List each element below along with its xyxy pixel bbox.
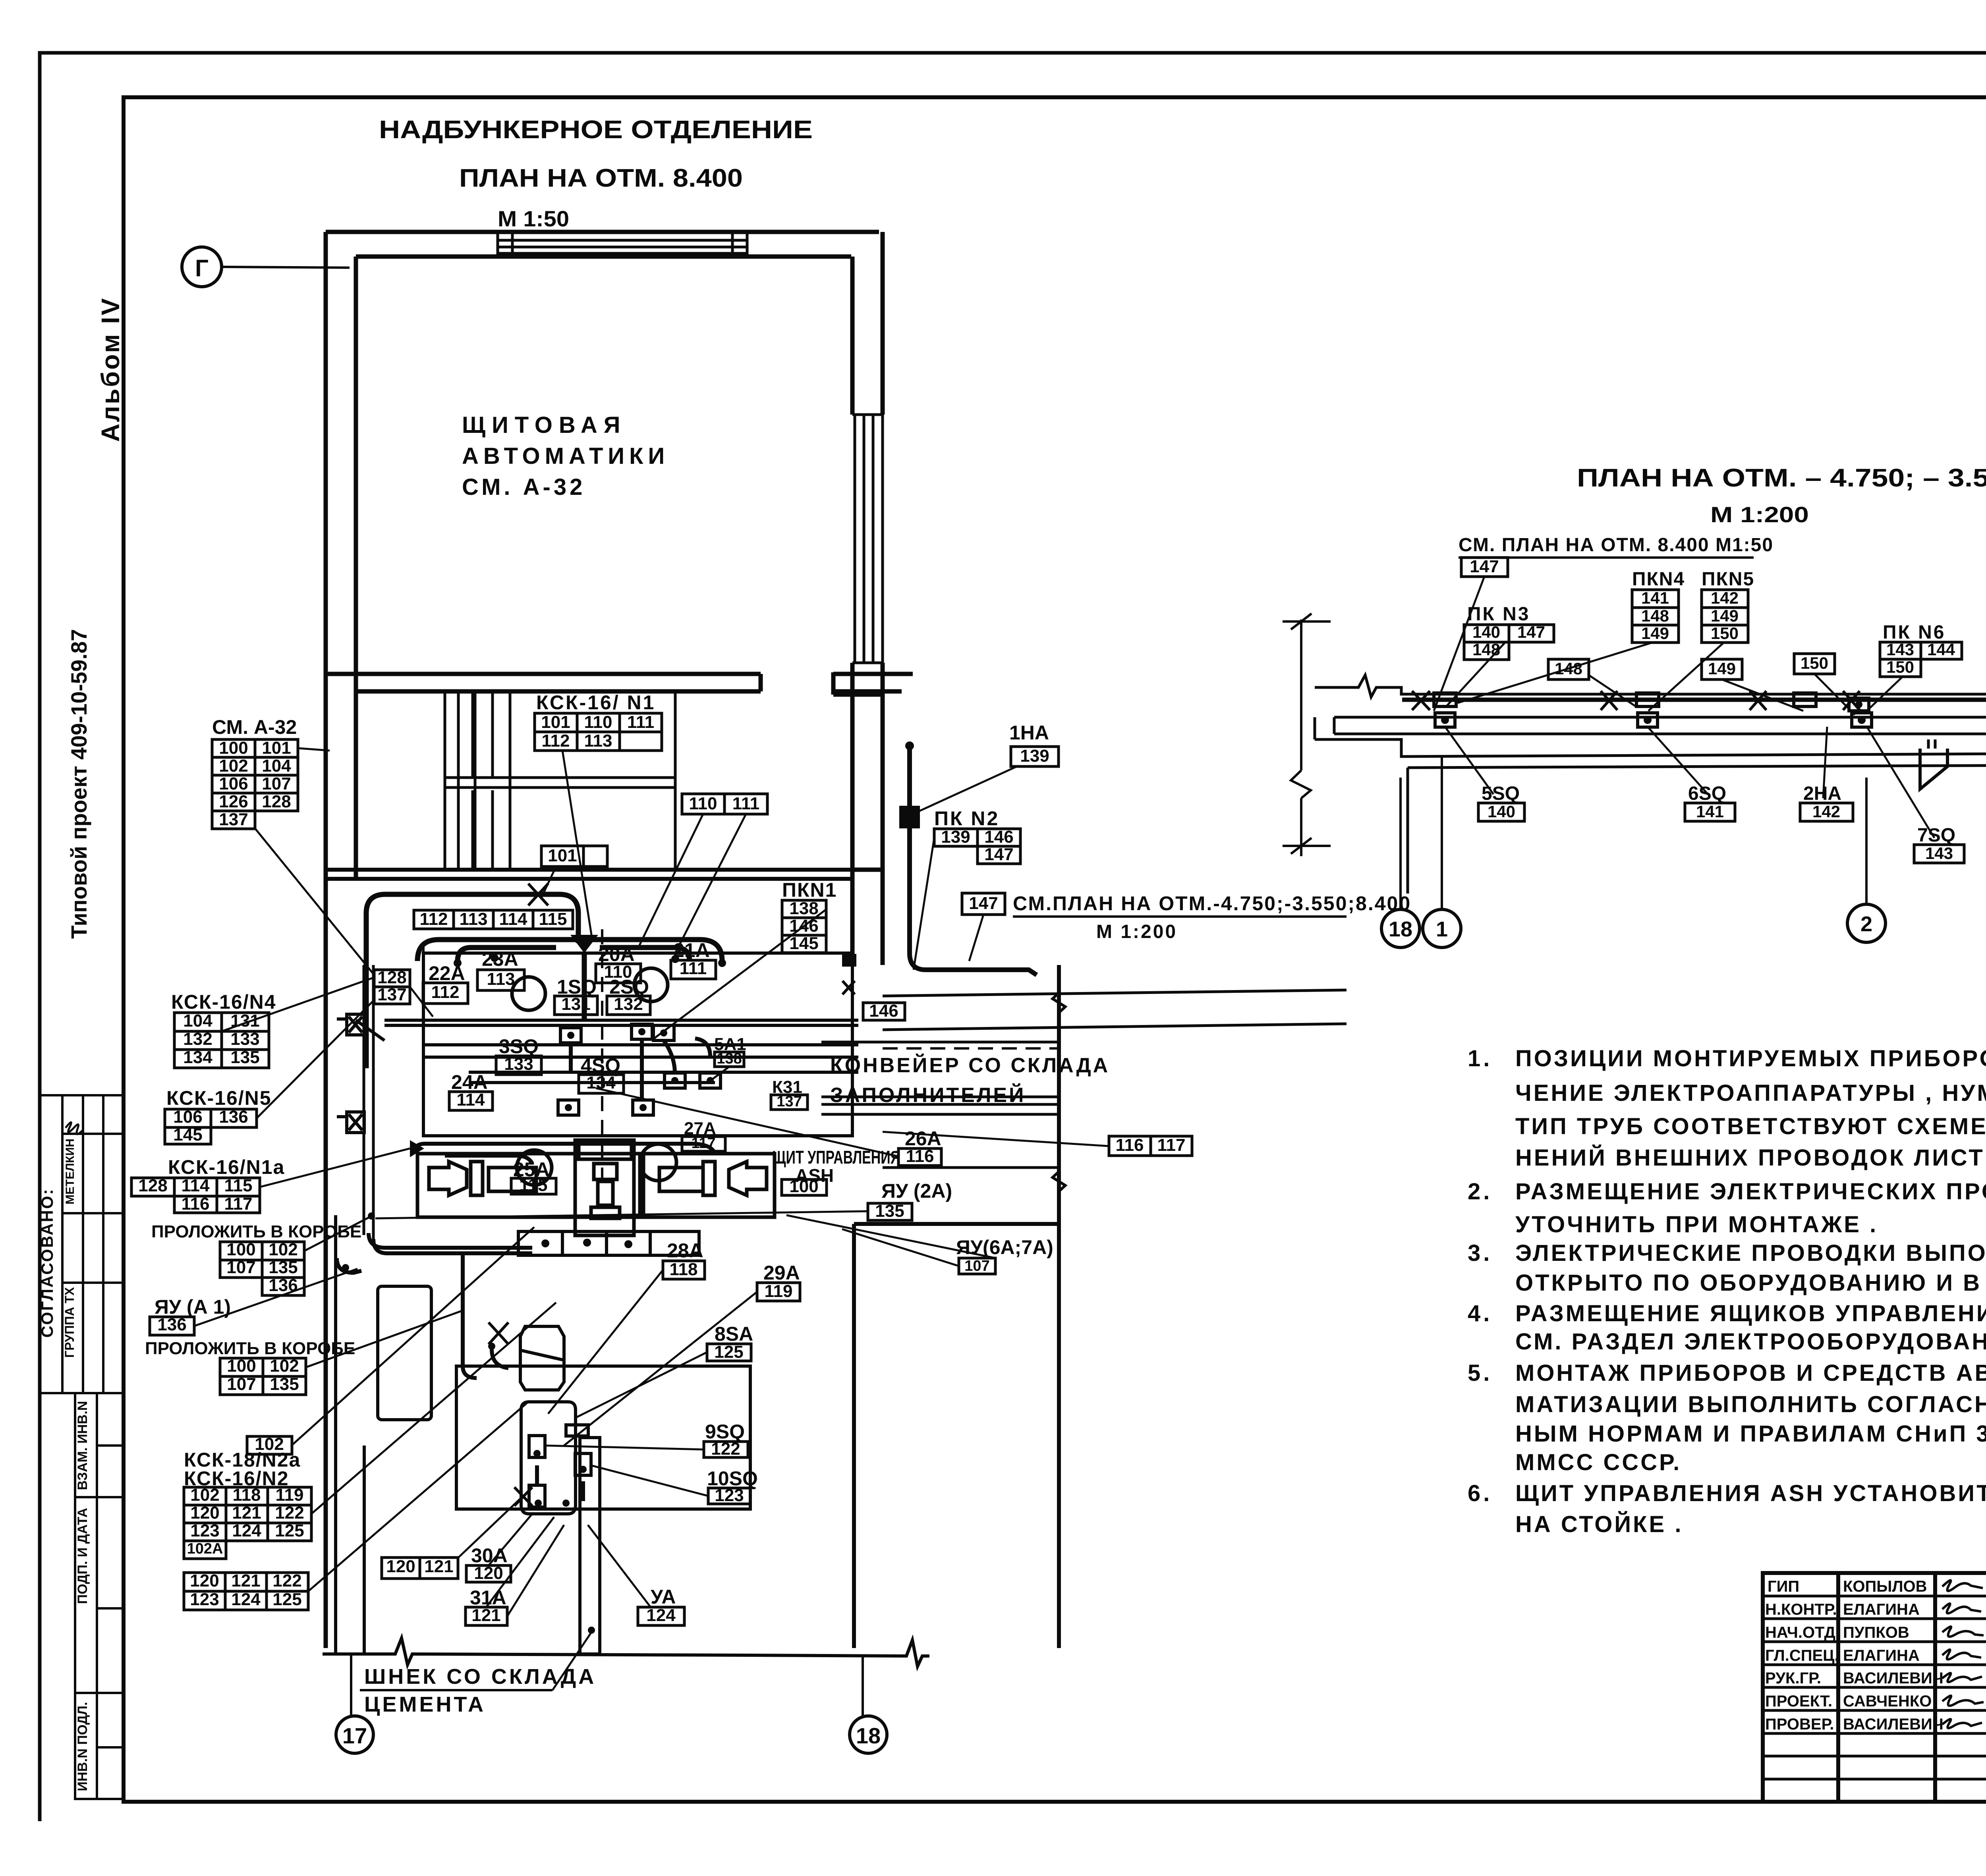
svg-text:145: 145 [789, 934, 818, 953]
svg-text:22А: 22А [429, 962, 465, 984]
svg-text:112: 112 [542, 731, 570, 751]
building top wall [326, 232, 879, 257]
leader from шнек text to pipe [553, 1632, 591, 1690]
svg-text:ПРОЛОЖИТЬ В КОРОБЕ: ПРОЛОЖИТЬ В КОРОБЕ [145, 1339, 355, 1358]
svg-text:ГИП: ГИП [1768, 1578, 1799, 1595]
svg-text:102А: 102А [187, 1540, 223, 1557]
svg-text:ЯУ(6А;7А): ЯУ(6А;7А) [956, 1236, 1053, 1258]
svg-text:149: 149 [1641, 624, 1669, 643]
svg-text:112: 112 [420, 909, 448, 929]
svg-text:ЧЕНИЕ ЭЛЕКТРОАППАРАТУРЫ , НУ: ЧЕНИЕ ЭЛЕКТРОАППАРАТУРЫ , НУМЕРАЦИЯ , [1515, 1080, 1986, 1106]
svg-text:ИНВ.N ПОДЛ.: ИНВ.N ПОДЛ. [75, 1702, 90, 1791]
svg-text:138: 138 [789, 899, 818, 918]
svg-text:ПК N3: ПК N3 [1467, 604, 1530, 625]
svg-text:Н.КОНТР.: Н.КОНТР. [1765, 1601, 1837, 1618]
svg-text:СМ. ПЛАН НА ОТМ. 8.400 М1:50: СМ. ПЛАН НА ОТМ. 8.400 М1:50 [1459, 535, 1773, 556]
svg-text:140: 140 [1472, 623, 1500, 641]
vertical line x=2666 breaks [1053, 965, 1065, 1191]
svg-text:2.: 2. [1468, 1179, 1492, 1204]
svg-text:102: 102 [270, 1356, 299, 1376]
svg-text:139: 139 [941, 827, 970, 847]
svg-text:28А: 28А [667, 1239, 703, 1262]
svg-text:143: 143 [1925, 844, 1953, 863]
svg-text:5А1: 5А1 [714, 1035, 746, 1054]
svg-text:ПК N2: ПК N2 [934, 807, 999, 830]
svg-text:145: 145 [173, 1125, 202, 1145]
147 box (see plan note) [962, 893, 1005, 915]
svg-text:ГЛ.СПЕЦ.: ГЛ.СПЕЦ. [1765, 1647, 1839, 1664]
svg-text:Альбом IV: Альбом IV [96, 297, 125, 442]
svg-text:111: 111 [680, 959, 707, 978]
room right wall with window [852, 232, 883, 691]
svg-text:116: 116 [182, 1194, 210, 1214]
svg-text:КСК-16/N5: КСК-16/N5 [166, 1087, 272, 1109]
svg-text:ОТКРЫТО ПО ОБОРУДОВАНИЮ И: ОТКРЫТО ПО ОБОРУДОВАНИЮ И В КОРОБЕ . [1515, 1270, 1986, 1296]
svg-text:21А: 21А [673, 939, 710, 961]
svg-text:111: 111 [732, 794, 760, 813]
svg-text:Типовой проект 409-10-59.87: Типовой проект 409-10-59.87 [66, 629, 91, 939]
svg-text:СМ.ПЛАН НА ОТМ.-4.750;-3.550;8: СМ.ПЛАН НА ОТМ.-4.750;-3.550;8.400 [1013, 892, 1411, 915]
svg-text:121: 121 [424, 1557, 453, 1576]
svg-text:НЫМ НОРМАМ И ПРАВИЛАМ СНиП: НЫМ НОРМАМ И ПРАВИЛАМ СНиП 3.05.07-85 [1515, 1421, 1986, 1447]
svg-text:САВЧЕНКО: САВЧЕНКО [1843, 1693, 1932, 1710]
conveyor structure [1315, 651, 1986, 894]
svg-text:1: 1 [1436, 917, 1448, 941]
svg-text:5.: 5. [1468, 1360, 1492, 1386]
svg-text:123: 123 [190, 1521, 219, 1540]
room bottom wall [326, 674, 913, 691]
svg-text:147: 147 [984, 845, 1013, 864]
svg-text:150: 150 [1801, 654, 1828, 672]
svg-text:110: 110 [584, 712, 612, 732]
right wall window hatch [852, 415, 883, 663]
svg-text:100: 100 [227, 1356, 256, 1376]
svg-text:3.: 3. [1468, 1240, 1492, 1266]
sidebar bottom cells [75, 1393, 124, 1799]
svg-text:135: 135 [270, 1374, 299, 1394]
128/137 left box [374, 970, 410, 987]
svg-text:КОНВЕЙЕР СО СКЛАДА: КОНВЕЙЕР СО СКЛАДА [830, 1054, 1110, 1077]
wall junction boxes [337, 1014, 364, 1133]
110|111 [682, 794, 724, 814]
svg-text:УТОЧНИТЬ ПРИ МОНТАЖЕ .: УТОЧНИТЬ ПРИ МОНТАЖЕ . [1515, 1212, 1878, 1237]
svg-text:114: 114 [182, 1176, 210, 1195]
svg-text:124: 124 [646, 1606, 676, 1625]
svg-text:КОПЫЛОВ: КОПЫЛОВ [1843, 1578, 1927, 1595]
svg-text:137: 137 [219, 810, 248, 829]
svg-text:115: 115 [224, 1176, 253, 1195]
svg-text:ГРУППА ТХ: ГРУППА ТХ [62, 1287, 77, 1358]
svg-text:ЕЛАГИНА: ЕЛАГИНА [1843, 1601, 1920, 1618]
svg-text:128: 128 [377, 968, 406, 987]
svg-text:146: 146 [984, 827, 1013, 847]
svg-text:101: 101 [541, 712, 570, 732]
svg-text:125: 125 [714, 1342, 743, 1362]
svg-text:М 1:50: М 1:50 [498, 206, 569, 231]
svg-text:141: 141 [1641, 589, 1669, 607]
KSK N2 table [184, 1487, 226, 1505]
machinery labels boxes [423, 983, 468, 1004]
PK N1 table [782, 900, 826, 918]
svg-text:136: 136 [219, 1107, 248, 1127]
svg-text:ПЛАН НА ОТМ. 8.400: ПЛАН НА ОТМ. 8.400 [459, 164, 743, 192]
leader from Г to wall [222, 267, 350, 268]
svg-text:147: 147 [969, 894, 998, 913]
box number texts [138, 712, 1185, 1625]
svg-text:ПУПКОВ: ПУПКОВ [1843, 1624, 1909, 1641]
svg-text:ЩИТ УПРАВЛЕНИЯ ASH УСТАНОВИ: ЩИТ УПРАВЛЕНИЯ ASH УСТАНОВИТЬ [1515, 1480, 1986, 1506]
svg-text:115: 115 [539, 909, 567, 929]
label texts (names above boxes) [145, 691, 1053, 1609]
svg-text:1НА: 1НА [1009, 722, 1049, 744]
svg-text:119: 119 [765, 1282, 793, 1301]
svg-text:123: 123 [190, 1590, 219, 1609]
svg-text:112: 112 [431, 982, 460, 1002]
svg-text:142: 142 [1711, 589, 1739, 607]
sidebar approval table [40, 1095, 124, 1393]
ЯУ(А 1) 136 [150, 1317, 194, 1335]
ПРОЛОЖИТЬ В КОРОБЕ 1 [220, 1242, 262, 1260]
svg-text:ЯУ (2А): ЯУ (2А) [881, 1180, 952, 1202]
svg-text:ПОЗИЦИИ МОНТИРУЕМЫХ ПРИБОРОВ: ПОЗИЦИИ МОНТИРУЕМЫХ ПРИБОРОВ , ОБОЗНА- [1515, 1046, 1986, 1071]
svg-text:ТИП ТРУБ СООТВЕТСТВУЮТ СХЕМ: ТИП ТРУБ СООТВЕТСТВУЮТ СХЕМЕ СОЕДИ- [1515, 1114, 1986, 1139]
discharge arrow [1920, 749, 1947, 789]
svg-text:128: 128 [138, 1176, 167, 1195]
svg-text:МОНТАЖ ПРИБОРОВ И СРЕДСТВ: МОНТАЖ ПРИБОРОВ И СРЕДСТВ АВТО- [1515, 1360, 1986, 1386]
svg-text:113: 113 [487, 969, 515, 989]
table see A-32 [212, 739, 255, 757]
svg-text:УА: УА [651, 1586, 676, 1608]
svg-text:132: 132 [183, 1029, 212, 1049]
svg-text:122: 122 [275, 1503, 304, 1523]
svg-text:КСК-16/N2: КСК-16/N2 [184, 1467, 289, 1490]
svg-text:СМ. А-32: СМ. А-32 [212, 716, 297, 738]
svg-text:К31: К31 [772, 1077, 802, 1097]
svg-text:ЭЛЕКТРИЧЕСКИЕ ПРОВОДКИ ВЫПОЛ: ЭЛЕКТРИЧЕСКИЕ ПРОВОДКИ ВЫПОЛНИТЬ [1515, 1240, 1986, 1266]
svg-text:ВЗАМ. ИНВ.N: ВЗАМ. ИНВ.N [75, 1401, 90, 1490]
116|117 box right [1109, 1136, 1151, 1156]
svg-text:134: 134 [183, 1048, 213, 1067]
leader lines right plan [1434, 577, 1986, 838]
svg-text:ASH: ASH [795, 1165, 834, 1186]
svg-text:М 1:200: М 1:200 [1096, 921, 1177, 942]
svg-text:126: 126 [219, 792, 248, 811]
wires lower [337, 1233, 583, 1501]
svg-text:113: 113 [460, 909, 488, 929]
svg-text:27А: 27А [684, 1119, 716, 1138]
svg-text:ПОДП. И ДАТА: ПОДП. И ДАТА [75, 1508, 90, 1604]
leaders to circles [1401, 757, 1986, 909]
svg-text:120: 120 [190, 1571, 219, 1590]
svg-text:133: 133 [230, 1029, 259, 1049]
svg-text:23А: 23А [482, 948, 518, 970]
svg-text:101: 101 [548, 846, 577, 865]
120-125 table [184, 1573, 225, 1591]
svg-text:128: 128 [262, 792, 291, 811]
top broken left end [1315, 675, 1986, 697]
svg-text:6.: 6. [1468, 1480, 1492, 1506]
svg-text:144: 144 [1927, 640, 1955, 659]
wires in machinery [414, 1038, 715, 1164]
svg-text:НАЧ.ОТД.: НАЧ.ОТД. [1765, 1624, 1840, 1641]
mixer circles [512, 968, 676, 1185]
svg-text:СОГЛАСОВАНО:: СОГЛАСОВАНО: [38, 1188, 56, 1338]
svg-text:3SQ: 3SQ [499, 1035, 539, 1058]
svg-text:ПКN5: ПКN5 [1702, 569, 1754, 590]
svg-text:149: 149 [1708, 659, 1736, 678]
svg-text:150: 150 [1886, 658, 1914, 676]
svg-text:111: 111 [627, 712, 655, 732]
svg-text:135: 135 [875, 1201, 904, 1221]
svg-text:9SQ: 9SQ [705, 1421, 745, 1443]
svg-text:101: 101 [262, 738, 291, 758]
X marks on cables [489, 884, 855, 1506]
main stamp [1763, 1573, 1986, 1802]
machinery block outline (upper) [356, 953, 858, 1136]
svg-text:114: 114 [499, 909, 528, 929]
leader lines (left plan) [194, 748, 1109, 1616]
ПРОЛОЖИТЬ В КОРОБЕ 2 [220, 1358, 263, 1376]
svg-text:140: 140 [1488, 802, 1515, 821]
svg-text:124: 124 [231, 1590, 261, 1609]
101 [541, 846, 583, 867]
svg-text:РАЗМЕЩЕНИЕ ЯЩИКОВ УПРАВЛЕНИЯ: РАЗМЕЩЕНИЕ ЯЩИКОВ УПРАВЛЕНИЯ (ЯУ) [1515, 1301, 1986, 1326]
cable duct along left wall [364, 965, 373, 1241]
svg-text:26А: 26А [905, 1127, 941, 1150]
svg-text:124: 124 [232, 1521, 261, 1540]
bottom column circles [1381, 664, 1986, 948]
svg-text:10SQ: 10SQ [707, 1467, 758, 1490]
svg-text:2: 2 [1860, 912, 1872, 936]
svg-text:АВТОМАТИКИ: АВТОМАТИКИ [462, 443, 669, 469]
svg-text:125: 125 [272, 1590, 301, 1609]
KSK-16/N1 table [535, 713, 577, 732]
svg-text:137: 137 [377, 985, 406, 1004]
svg-text:1SQ: 1SQ [557, 976, 597, 998]
svg-text:120: 120 [386, 1557, 415, 1576]
svg-text:20А: 20А [598, 943, 635, 965]
X marks [1412, 691, 1860, 710]
svg-text:121: 121 [232, 1503, 261, 1523]
svg-text:118: 118 [670, 1260, 698, 1279]
svg-text:135: 135 [230, 1048, 259, 1067]
svg-text:ВАСИЛЕВИЧ: ВАСИЛЕВИЧ [1843, 1716, 1943, 1733]
column circle 18 (left plan) [850, 1716, 887, 1753]
svg-text:4.: 4. [1468, 1301, 1492, 1326]
svg-text:ЯУ (А 1): ЯУ (А 1) [155, 1296, 231, 1318]
svg-text:МАТИЗАЦИИ ВЫПОЛНИТЬ СОГЛАСНО: МАТИЗАЦИИ ВЫПОЛНИТЬ СОГЛАСНО СТРОИТЕЛЬ- [1515, 1392, 1986, 1417]
svg-text:НАДБУНКЕРНОЕ ОТДЕЛЕНИЕ: НАДБУНКЕРНОЕ ОТДЕЛЕНИЕ [379, 115, 813, 144]
svg-text:18: 18 [1389, 917, 1412, 941]
svg-text:147: 147 [1517, 623, 1545, 641]
svg-text:ММСС СССР.: ММСС СССР. [1515, 1449, 1681, 1475]
ПК N2 cable at right [902, 747, 1037, 975]
svg-text:117: 117 [1157, 1135, 1186, 1155]
svg-text:РУК.ГР.: РУК.ГР. [1765, 1669, 1821, 1687]
svg-text:113: 113 [584, 731, 612, 751]
svg-text:100: 100 [226, 1240, 255, 1259]
svg-text:117: 117 [224, 1194, 253, 1214]
svg-text:МЕТЕЛКИН: МЕТЕЛКИН [64, 1139, 77, 1204]
svg-text:ПКN4: ПКN4 [1632, 569, 1685, 590]
svg-text:120: 120 [190, 1503, 219, 1523]
svg-text:РАЗМЕЩЕНИЕ ЭЛЕКТРИЧЕСКИХ ПРО: РАЗМЕЩЕНИЕ ЭЛЕКТРИЧЕСКИХ ПРОВОДОК [1515, 1179, 1986, 1204]
svg-text:29А: 29А [763, 1262, 800, 1284]
svg-text:25А: 25А [513, 1158, 550, 1181]
svg-text:НА СТОЙКЕ .: НА СТОЙКЕ . [1515, 1511, 1683, 1537]
svg-text:КСК-16/N4: КСК-16/N4 [171, 991, 276, 1013]
svg-text:102: 102 [269, 1240, 298, 1259]
102 box [247, 1436, 292, 1454]
svg-text:ПРОВЕР.: ПРОВЕР. [1765, 1716, 1834, 1733]
leader to 17 [350, 1654, 352, 1716]
sensors on conveyor [1434, 693, 1986, 727]
signatures squiggles [1942, 1580, 1984, 1728]
building left wall [326, 232, 356, 1648]
svg-text:Г: Г [195, 255, 209, 282]
svg-text:М 1:200: М 1:200 [1710, 502, 1809, 527]
svg-text:1.: 1. [1468, 1046, 1492, 1071]
filled triangle connector [570, 935, 598, 953]
svg-text:122: 122 [272, 1571, 301, 1590]
svg-text:110: 110 [689, 794, 717, 813]
svg-text:150: 150 [1711, 624, 1739, 643]
svg-text:18: 18 [856, 1723, 881, 1748]
top wall window [498, 232, 747, 257]
svg-text:ПКN1: ПКN1 [782, 879, 837, 901]
svg-text:104: 104 [183, 1011, 213, 1031]
KSK-16/N5 [165, 1109, 211, 1127]
svg-text:107: 107 [964, 1258, 989, 1274]
building right wall below room [833, 672, 883, 965]
svg-text:135: 135 [269, 1258, 298, 1277]
146 box [863, 1003, 905, 1020]
svg-text:107: 107 [226, 1258, 255, 1277]
1NA box 139 [1011, 747, 1059, 766]
svg-text:КСК-16/ N1: КСК-16/ N1 [536, 691, 655, 714]
svg-text:ЦЕМЕНТА: ЦЕМЕНТА [364, 1693, 486, 1716]
conveyor pass-through (left plan, to warehouse) [821, 990, 1347, 1168]
lower corridor wall [326, 870, 852, 879]
svg-text:ЕЛАГИНА: ЕЛАГИНА [1843, 1647, 1920, 1664]
dimension line left of structure [1283, 614, 1331, 856]
svg-text:ЗАПОЛНИТЕЛЕЙ: ЗАПОЛНИТЕЛЕЙ [830, 1083, 1026, 1107]
column mark Г circle [182, 247, 222, 287]
center pump assembly [575, 1140, 634, 1235]
svg-text:106: 106 [173, 1107, 202, 1127]
svg-text:ПЛАН НА ОТМ. – 4.750; – 3.55: ПЛАН НА ОТМ. – 4.750; – 3.550; 8.400 [1577, 463, 1986, 492]
svg-text:17: 17 [342, 1723, 367, 1748]
svg-text:121: 121 [231, 1571, 260, 1590]
svg-text:102: 102 [219, 756, 248, 776]
left arrow connector [410, 1140, 424, 1157]
KSK-16/N1a [131, 1178, 174, 1196]
junction square on wall conveyor line [842, 954, 856, 967]
column circle 17 [336, 1716, 373, 1753]
svg-text:2SQ: 2SQ [609, 976, 649, 998]
svg-text:ЩИТОВАЯ: ЩИТОВАЯ [462, 412, 626, 438]
lower machinery: motor groups [417, 1154, 775, 1217]
svg-text:139: 139 [1020, 746, 1049, 766]
lower-left machinery extras [378, 1231, 699, 1420]
svg-text:148: 148 [1641, 606, 1669, 625]
svg-text:149: 149 [1711, 606, 1739, 625]
svg-text:106: 106 [219, 774, 248, 793]
svg-text:2НА: 2НА [1803, 783, 1841, 804]
112-115 strip [414, 910, 454, 929]
svg-text:НЕНИЙ ВНЕШНИХ ПРОВОДОК ЛИСТ: НЕНИЙ ВНЕШНИХ ПРОВОДОК ЛИСТ А-24 , А-25. [1515, 1145, 1986, 1171]
svg-text:СМ. РАЗДЕЛ ЭЛЕКТРООБОРУДОВАН: СМ. РАЗДЕЛ ЭЛЕКТРООБОРУДОВАНИЯ . [1515, 1329, 1986, 1355]
svg-text:4SQ: 4SQ [581, 1054, 620, 1077]
svg-text:125: 125 [275, 1521, 304, 1540]
staircase [445, 691, 675, 870]
svg-text:ЩИТ УПРАВЛЕНИЯ: ЩИТ УПРАВЛЕНИЯ [772, 1147, 900, 1168]
svg-text:142: 142 [1812, 802, 1840, 821]
svg-text:147: 147 [1470, 557, 1499, 576]
svg-text:КСК-16/N1а: КСК-16/N1а [168, 1156, 285, 1178]
svg-text:100: 100 [219, 738, 248, 758]
svg-text:24А: 24А [451, 1071, 488, 1093]
left margin tables: KSK-16/N4 [174, 1013, 222, 1031]
svg-text:СМ. А-32: СМ. А-32 [462, 474, 585, 500]
svg-text:148: 148 [1472, 640, 1500, 659]
svg-text:7SQ: 7SQ [1917, 825, 1955, 846]
PK N2 table [934, 829, 978, 846]
svg-text:141: 141 [1696, 802, 1724, 821]
svg-text:146: 146 [869, 1001, 898, 1021]
svg-text:143: 143 [1886, 640, 1914, 659]
120|121 [382, 1558, 420, 1579]
right wall lower segment [854, 965, 1059, 1648]
svg-text:ВАСИЛЕВИЧ: ВАСИЛЕВИЧ [1843, 1669, 1943, 1687]
svg-text:8SA: 8SA [715, 1323, 753, 1345]
dashed boundaries [423, 929, 1059, 1187]
svg-text:116: 116 [1116, 1135, 1144, 1155]
machinery: upper cable tray (bold wire) [366, 894, 722, 1068]
svg-text:107: 107 [262, 774, 291, 793]
building bottom line with breaks [323, 1215, 929, 1666]
svg-text:104: 104 [262, 756, 291, 776]
signature squiggle [66, 1122, 82, 1134]
sensor squares row [558, 1024, 721, 1115]
svg-text:107: 107 [227, 1374, 256, 1394]
svg-text:ПРОЕКТ.: ПРОЕКТ. [1765, 1693, 1832, 1710]
